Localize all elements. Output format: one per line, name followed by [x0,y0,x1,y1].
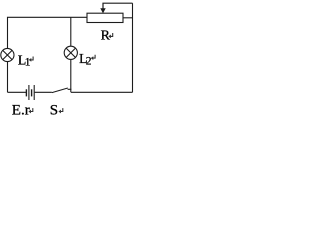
svg-text:2: 2 [86,56,92,68]
svg-text:E.r: E.r [12,103,30,117]
svg-text:R: R [101,28,111,43]
svg-text:1: 1 [25,56,31,68]
svg-text:S: S [50,103,58,117]
